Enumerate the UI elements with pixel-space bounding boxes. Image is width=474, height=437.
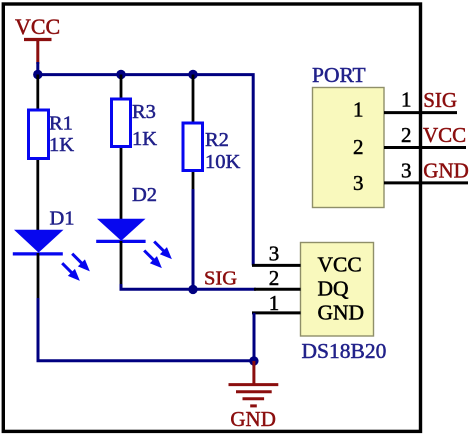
- LED D1: [13, 208, 94, 301]
- wire D2 to SIG node: [121, 284, 256, 289]
- svg-text:SIG: SIG: [204, 268, 237, 290]
- junction node R2: [188, 70, 197, 79]
- svg-text:3: 3: [353, 171, 364, 195]
- LED D2: [96, 184, 175, 285]
- resistor R3 1K: [112, 75, 158, 220]
- svg-text:GND: GND: [423, 158, 469, 182]
- svg-text:VCC: VCC: [15, 14, 60, 39]
- connector PORT: [312, 63, 468, 208]
- svg-text:D1: D1: [50, 208, 75, 230]
- svg-text:3: 3: [269, 241, 280, 265]
- svg-text:VCC: VCC: [423, 123, 466, 147]
- resistor R1 1K: [29, 75, 75, 231]
- resistor R2 10K: [183, 75, 241, 192]
- svg-text:VCC: VCC: [318, 253, 362, 277]
- svg-text:1: 1: [401, 88, 412, 112]
- junction node ground: [249, 356, 258, 365]
- svg-text:SIG: SIG: [423, 88, 457, 112]
- svg-text:DQ: DQ: [318, 277, 350, 301]
- svg-text:2: 2: [401, 123, 412, 147]
- junction node VCC/R1: [33, 70, 42, 79]
- svg-text:1: 1: [269, 291, 280, 315]
- junction node R3: [116, 70, 125, 79]
- ground: [229, 361, 279, 431]
- svg-text:3: 3: [401, 158, 412, 182]
- svg-text:2: 2: [353, 135, 364, 159]
- power symbol VCC: [15, 14, 60, 64]
- wire DS18B20 pin1 to ground node: [253, 313, 256, 361]
- svg-text:PORT: PORT: [312, 63, 366, 87]
- svg-text:R1: R1: [49, 113, 73, 135]
- wire VCC bus: [38, 62, 253, 265]
- svg-text:GND: GND: [230, 407, 276, 431]
- svg-text:R2: R2: [205, 129, 229, 151]
- junction node SIG: [188, 285, 197, 294]
- svg-text:GND: GND: [318, 301, 365, 325]
- svg-text:1: 1: [353, 98, 364, 122]
- svg-text:R3: R3: [132, 101, 156, 123]
- svg-text:D2: D2: [132, 184, 157, 206]
- wire D1 cathode to ground node: [38, 298, 255, 361]
- svg-text:1K: 1K: [49, 134, 74, 156]
- svg-text:1K: 1K: [132, 128, 157, 150]
- IC DS18B20: [252, 241, 386, 363]
- svg-text:10K: 10K: [205, 151, 241, 173]
- svg-text:2: 2: [269, 266, 280, 290]
- wire R2 to SIG node: [192, 189, 195, 289]
- svg-text:DS18B20: DS18B20: [302, 339, 387, 363]
